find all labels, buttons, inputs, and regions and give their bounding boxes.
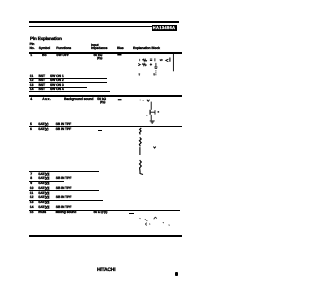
page number [175,272,178,277]
transistor Q1 emitter arrow [166,59,169,62]
resistor R3c with foot [140,160,144,174]
arrow into node [138,64,140,66]
table header [30,43,35,46]
row pin 4 [30,98,32,101]
rule above row 15 [29,210,180,211]
tap arrow [153,147,155,149]
wire [139,147,141,155]
block rule [29,95,183,97]
group D cell 3 [29,190,99,191]
transistor Q2 base bar [149,110,151,115]
section heading [30,37,62,42]
transistor Q1 base bar [169,58,171,62]
bottom table rule [29,235,183,237]
resistor R1b [142,63,146,65]
transistor Q1 collector wire [172,54,174,72]
row pin 15 [30,211,34,214]
capacitor C1 to ground [154,63,157,68]
group D cell 1 [29,171,99,172]
ground GND2 [150,121,155,123]
trim mark [150,63,152,66]
group D cell 2 [29,181,65,182]
row pin 6 [30,128,32,131]
top rule 1 [29,21,179,22]
input arrow [147,100,150,102]
small left mark [146,115,147,117]
bias mark row 1 [117,53,121,56]
node dot [158,111,160,112]
node dot [138,59,141,60]
wire [154,58,156,61]
faint marks left of arrow [140,99,144,102]
row pin 1 [30,54,32,57]
transistor Q2 collector/emitter [151,110,155,115]
capacitor C1a plates [150,59,152,61]
group D cell 4 [29,200,104,201]
wire down [150,115,152,120]
resistor R1a [142,59,146,61]
HITACHI logo [97,268,115,273]
block rule [29,126,183,128]
part number black box [152,25,178,31]
resistor R3a [140,128,142,135]
row pin 5 [30,123,32,126]
group B rows [30,75,33,78]
small mark [160,60,163,61]
header underline (thick) [29,52,183,54]
wire [150,102,152,110]
dashed wire below C1 [155,70,157,75]
top rule 2 [29,26,152,27]
bias mark row 4 [118,99,122,100]
ground dashes [139,74,141,75]
resistor R3b [139,137,141,146]
